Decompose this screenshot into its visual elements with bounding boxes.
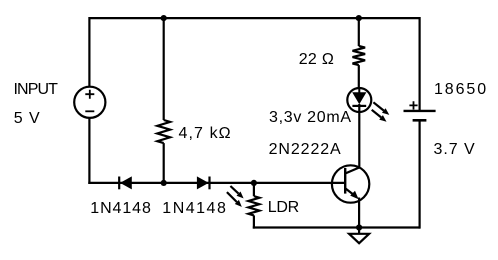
label 2N2222A — [269, 141, 342, 159]
LED D3 — [347, 88, 371, 112]
junction dot top-right — [356, 15, 362, 21]
label 1N4148 second — [162, 200, 227, 218]
junction dot top-left — [161, 15, 167, 21]
wire left vertical lower — [88, 118, 90, 184]
wire bottom rail — [253, 226, 420, 228]
voltage source V1 — [74, 87, 105, 118]
diode D1 1N4148 (pointing left) — [119, 176, 132, 189]
resistor R1 4,7 kOhm vertical — [157, 18, 170, 183]
wire left vertical upper — [88, 17, 90, 87]
junction dot ground — [356, 224, 362, 230]
label 3.7 V — [434, 141, 476, 159]
wire bottom-left horizontal (diode row to base) — [88, 182, 345, 184]
diode D2 1N4148 (pointing right) — [197, 176, 210, 189]
junction dot diode row — [161, 180, 167, 186]
label 1N4148 first — [90, 200, 151, 218]
battery B1 18650 — [404, 17, 436, 229]
label 22 Ohm — [299, 51, 334, 69]
label 18650 — [434, 81, 488, 99]
LED light arrows — [372, 102, 390, 122]
label 4,7 kOhm — [179, 125, 232, 143]
wire LED to transistor collector — [358, 104, 360, 168]
wire top rail — [89, 17, 420, 19]
LDR light arrows — [227, 186, 244, 207]
LDR R3 — [248, 183, 259, 229]
ground — [349, 228, 369, 244]
label 3,3v 20mA — [269, 109, 352, 127]
junction dot LDR top — [251, 180, 257, 186]
resistor R2 22 Ohm vertical — [353, 18, 366, 88]
wire emitter down — [358, 198, 360, 229]
transistor Q1 2N2222A — [332, 165, 369, 202]
label 5 V — [14, 110, 41, 128]
label LDR — [268, 199, 299, 217]
label INPUT — [14, 81, 58, 99]
